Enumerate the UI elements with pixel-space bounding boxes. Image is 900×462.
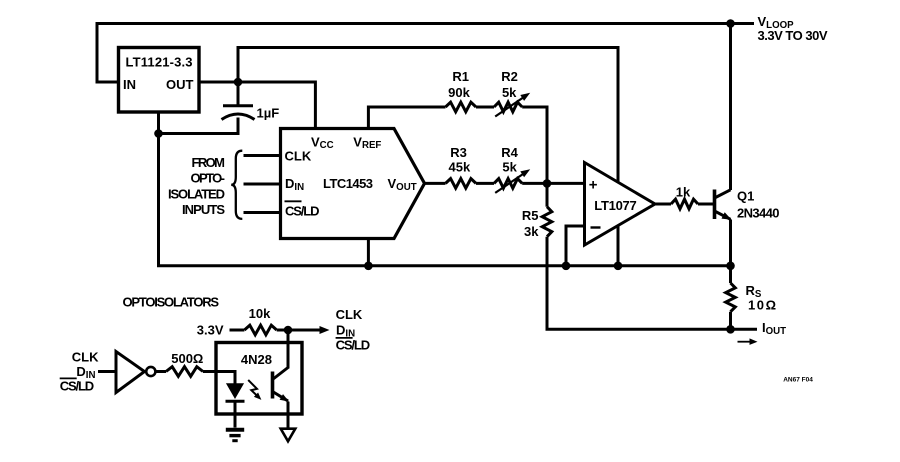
wire: LTC1453 GND pin to bus (367, 239, 370, 266)
svg-text:4N28: 4N28 (241, 352, 272, 367)
wire: 1k to Q1 base (698, 203, 715, 206)
svg-text:3.3V TO 30V: 3.3V TO 30V (758, 28, 828, 43)
wire: capacitor bottom to ground vertical (159, 118, 239, 134)
resistor R5 3k (542, 207, 552, 237)
optoisolator U6 4N28 box (216, 343, 302, 415)
svg-text:LTC1453: LTC1453 (323, 176, 373, 191)
svg-text:AN67 F04: AN67 F04 (783, 376, 813, 383)
svg-text:5k: 5k (502, 85, 517, 100)
pin stub CLK (244, 154, 281, 157)
wire: summing node down to R5 (546, 183, 549, 206)
svg-text:90k: 90k (448, 85, 470, 100)
node: inverting input on bus (562, 262, 571, 271)
wire: V_LOOP top rail (97, 24, 754, 83)
arrow: I_OUT current direction (738, 341, 754, 343)
svg-text:R4: R4 (501, 145, 518, 160)
resistor R4 5k variable (494, 179, 522, 189)
svg-text:LT1121-3.3: LT1121-3.3 (126, 55, 193, 70)
node: emitter junction on bus (726, 262, 735, 271)
svg-text:1µF: 1µF (257, 106, 280, 121)
svg-text:+: + (589, 176, 598, 193)
inverter buffer U5 (116, 352, 145, 393)
wire: VOUT pin to R3 (425, 182, 446, 185)
wire: VREF pin up and right to R1 (368, 107, 445, 129)
node: V_LOOP junction (726, 19, 735, 28)
wire: OUT pin of LT1121 to VCC (199, 82, 315, 129)
wire: IN pin of LT1121 (96, 81, 119, 84)
transistor Q1 2N3440 (715, 190, 732, 220)
wire: R1 to R2 (476, 106, 494, 109)
svg-text:OPTOISOLATORS: OPTOISOLATORS (123, 294, 220, 309)
node: I_OUT junction (726, 325, 735, 334)
output labels CLK DIN CS/LD (right) (336, 307, 371, 353)
svg-text:R1: R1 (452, 69, 469, 84)
wire: op-amp inverting input to bus (566, 226, 585, 266)
svg-text:500Ω: 500Ω (171, 351, 203, 366)
wire: OUT node down to capacitor (237, 82, 240, 105)
resistor R1 90k (446, 102, 477, 112)
wire: Q1 emitter down to bus/RS (729, 220, 732, 284)
wire: bottom common bus (157, 264, 731, 267)
svg-text:R3: R3 (450, 145, 467, 160)
node: GND junction below LT1121 (154, 129, 163, 138)
svg-text:3k: 3k (524, 224, 539, 239)
LED inside 4N28 (227, 384, 243, 398)
pin stub DIN (244, 183, 281, 186)
wire: inputs to inverter (98, 370, 116, 373)
resistor R2 5k variable (494, 102, 522, 112)
svg-text:45k: 45k (449, 160, 471, 175)
photon arrow from LED to phototransistor (248, 380, 259, 397)
resistor R6 1k (671, 199, 698, 209)
svg-text:INPUTS: INPUTS (182, 202, 225, 217)
svg-text:CS/LD: CS/LD (285, 203, 320, 218)
svg-text:CLK: CLK (285, 148, 312, 163)
svg-text:1k: 1k (676, 185, 691, 200)
svg-text:OUT: OUT (166, 77, 194, 92)
inverter bubble (146, 367, 155, 376)
svg-text:R5: R5 (522, 208, 539, 223)
svg-text:Q1: Q1 (737, 189, 754, 204)
wire: R5 bottom crossing bus down then right to I_OUT node (547, 237, 731, 330)
svg-text:CLK: CLK (336, 307, 363, 322)
svg-text:LT1077: LT1077 (594, 198, 637, 213)
capacitor C1 1uF (223, 104, 253, 107)
node: collector/output junction (284, 326, 293, 335)
svg-text:FROM: FROM (192, 155, 226, 170)
open arrow terminal below emitter (281, 429, 296, 442)
node: LTC1453 GND on bus (364, 262, 373, 271)
svg-text:5k: 5k (502, 160, 517, 175)
wire: R2 right, corner down to summing node (522, 107, 547, 183)
svg-text:10Ω: 10Ω (748, 298, 776, 313)
svg-text:3.3V: 3.3V (197, 323, 224, 338)
svg-text:IN: IN (123, 77, 136, 92)
wire: photo collector up to 10k node (287, 330, 290, 369)
regulator U2 LT1121-3.3 (119, 48, 200, 113)
wire: 3.3V to 10k (230, 329, 245, 332)
svg-text:10k: 10k (249, 306, 271, 321)
svg-text:OPTO-: OPTO- (191, 171, 226, 186)
node: op-amp V- supply on bus (614, 262, 623, 271)
resistor R7 500 ohm (166, 367, 203, 377)
note: FROM OPTO-ISOLATED INPUTS (168, 155, 225, 217)
wire: 10k to collector node (277, 329, 288, 332)
DAC U3 LTC1453 body (281, 129, 425, 239)
pin stub CS/LD (244, 211, 281, 214)
wire: Q1 collector up to V_LOOP rail (729, 24, 732, 191)
phototransistor inside 4N28 (273, 368, 290, 402)
svg-text:2N3440: 2N3440 (737, 205, 780, 220)
wire: RS bottom to I_OUT terminal (731, 312, 758, 330)
wire: photo emitter down to output arrow (287, 402, 290, 428)
resistor R8 10k (244, 325, 276, 335)
node: OUT junction (234, 78, 243, 87)
wire: LED cathode to ground (234, 401, 237, 427)
svg-text:ISOLATED: ISOLATED (168, 186, 225, 201)
arrow: output to DAC inputs (288, 329, 321, 332)
brace for opto-isolated inputs (231, 151, 242, 219)
wire: op-amp output to 1k (655, 203, 671, 206)
node: summing junction R2/R4/R5 (543, 179, 552, 188)
ground symbol (226, 430, 244, 441)
wire: 3.3V rail from OUT node to op-amp V+ then V- to bottom bus (238, 48, 618, 266)
wire: LT1121 GND pin down to bottom bus (157, 112, 160, 266)
wire: 500 ohm to 4N28 LED (203, 372, 235, 384)
resistor R3 45k (446, 179, 477, 189)
svg-text:CS/LD: CS/LD (60, 378, 94, 393)
input labels CLK DIN CS/LD (left) (60, 350, 99, 394)
svg-text:R2: R2 (501, 69, 518, 84)
wire: bubble to 500 ohm (156, 370, 167, 373)
svg-text:CS/LD: CS/LD (336, 338, 371, 353)
wire: R3 to R4 (476, 182, 494, 185)
svg-text:CLK: CLK (72, 350, 99, 365)
op-amp U4 LT1077 (585, 163, 656, 246)
wire: R4 to op-amp + input (522, 182, 584, 185)
resistor RS 10ohm (726, 283, 736, 312)
